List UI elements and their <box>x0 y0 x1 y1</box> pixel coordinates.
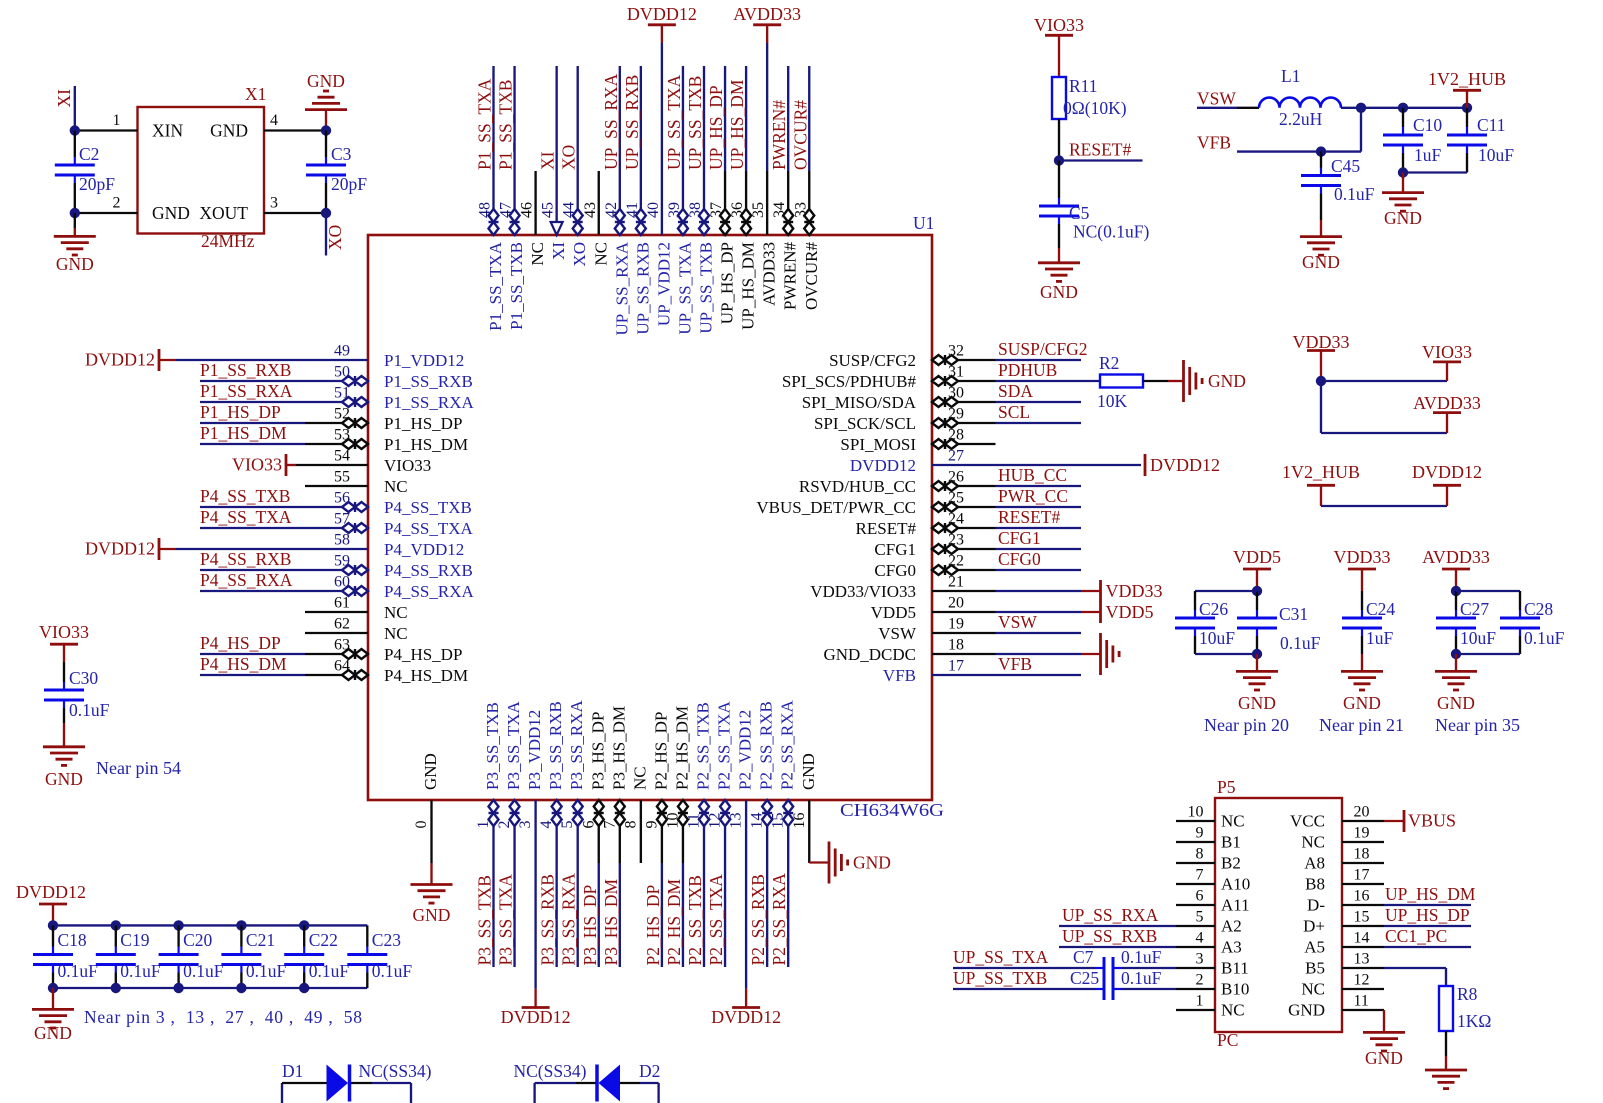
X1 pin names <box>152 121 248 224</box>
svg-text:24MHz: 24MHz <box>201 231 255 251</box>
svg-text:P2_SS_RXB: P2_SS_RXB <box>748 874 768 965</box>
wire VDD33 to AVDD33 <box>1321 381 1447 433</box>
U1 pin 36 UP_HS_DM (top) <box>729 66 758 330</box>
svg-text:GND: GND <box>1040 282 1078 302</box>
net label XO (pin 44) <box>559 145 579 170</box>
U1 pin 64 P4_HS_DM (left) <box>200 658 468 686</box>
U1 pin 62 NC (left) <box>305 616 408 644</box>
capacitor C45 0.1uF <box>1301 152 1375 220</box>
svg-text:UP_SS_RXB: UP_SS_RXB <box>633 242 652 335</box>
svg-text:22: 22 <box>948 553 964 570</box>
svg-text:P1_SS_RXA: P1_SS_RXA <box>200 381 293 401</box>
svg-text:VDD5: VDD5 <box>871 603 916 622</box>
ground symbol right of pin 16 <box>829 842 891 884</box>
svg-text:A5: A5 <box>1304 938 1325 957</box>
wire VSW to L1 <box>1237 107 1259 109</box>
svg-text:VSW: VSW <box>1197 89 1236 109</box>
net label RESET# (pin 24) <box>998 507 1060 527</box>
svg-text:62: 62 <box>334 616 350 633</box>
note Near pin 3 13 27 40 49 58 <box>84 1007 362 1027</box>
svg-text:NC(0.1uF): NC(0.1uF) <box>1073 222 1149 242</box>
svg-text:10: 10 <box>1188 804 1204 821</box>
svg-text:UP_SS_RXB: UP_SS_RXB <box>1062 926 1157 946</box>
net label VFB <box>1197 133 1231 153</box>
net label SDA (pin 30) <box>998 381 1033 401</box>
net label P4_SS_TXA (pin 57) <box>200 507 292 527</box>
net label P3_HS_DP (pin 6) <box>580 885 600 966</box>
net label P1_SS_RXB (pin 50) <box>200 360 291 380</box>
connector P5 body <box>1215 798 1342 1032</box>
U1 pin 19 VSW (right) <box>878 616 1081 644</box>
svg-text:26: 26 <box>948 469 964 486</box>
svg-text:CH634W6G: CH634W6G <box>840 800 944 820</box>
svg-text:GND: GND <box>1384 208 1422 228</box>
U1 pin 54 VIO33 (left) <box>286 448 431 476</box>
ground symbol below P5 pin 11 <box>1363 1032 1405 1068</box>
U1 pin 31 SPI_SCS/PDHUB# (right) <box>782 364 1081 392</box>
U1 pin 48 P1_SS_TXA (top) <box>477 66 506 331</box>
svg-text:47: 47 <box>498 202 515 218</box>
svg-text:Near pin 54: Near pin 54 <box>96 758 181 778</box>
power flag AVDD33 above pin 35 <box>733 4 801 43</box>
wire C45 to ground <box>1320 220 1322 237</box>
resistor R8 1Kohm <box>1439 984 1491 1031</box>
svg-text:28: 28 <box>948 427 964 444</box>
U1 pin 17 VFB (right) <box>883 658 1081 686</box>
svg-text:P4_SS_TXA: P4_SS_TXA <box>200 507 292 527</box>
ground symbol AVDD33 decap <box>1435 671 1477 713</box>
svg-text:CFG1: CFG1 <box>874 540 916 559</box>
svg-text:C11: C11 <box>1477 115 1506 135</box>
U1 pin 52 P1_HS_DP (left) <box>200 406 462 434</box>
U1 pin 39 UP_SS_TXA (top) <box>666 66 695 335</box>
U1 pin 24 RESET# (right) <box>856 511 1081 539</box>
net label UP_SS_RXA wire (P5 pin 5) <box>1059 905 1176 926</box>
svg-text:XO: XO <box>570 242 589 267</box>
power flag VDD33 (tie block) <box>1293 332 1350 381</box>
svg-text:53: 53 <box>334 427 350 444</box>
svg-text:GND: GND <box>1343 693 1381 713</box>
U1 reference designator <box>913 213 934 233</box>
svg-text:57: 57 <box>334 511 350 528</box>
wire R8 to ground <box>1445 1031 1447 1070</box>
svg-text:P1_SS_RXB: P1_SS_RXB <box>200 360 291 380</box>
U1 pin 23 CFG1 (right) <box>874 532 1081 560</box>
svg-text:GND: GND <box>1437 693 1475 713</box>
svg-text:NC: NC <box>1221 812 1245 831</box>
svg-text:AVDD33: AVDD33 <box>760 242 779 306</box>
svg-text:PWREN#: PWREN# <box>769 100 789 170</box>
U1 pin 5 P3_SS_RXA (bottom) <box>559 700 586 967</box>
node junction VDD33 tie <box>1316 376 1326 386</box>
power flag VIO33 above R11 <box>1034 15 1084 77</box>
svg-text:P2_HS_DP: P2_HS_DP <box>651 712 670 790</box>
net label P3_SS_TXB (pin 1) <box>475 875 495 965</box>
capacitor C22 0.1uF <box>284 925 349 988</box>
node junction C2/pin2/gnd <box>70 208 80 218</box>
svg-text:SPI_MISO/SDA: SPI_MISO/SDA <box>802 393 917 412</box>
svg-text:P2_HS_DM: P2_HS_DM <box>664 879 684 966</box>
svg-text:49: 49 <box>334 343 350 360</box>
U1 pin 34 PWREN# (top) <box>771 66 800 310</box>
svg-text:0.1uF: 0.1uF <box>309 961 350 981</box>
svg-text:C31: C31 <box>1279 604 1308 624</box>
svg-text:GND: GND <box>56 254 94 274</box>
svg-text:P4_SS_RXB: P4_SS_RXB <box>384 561 473 580</box>
svg-text:P4_SS_TXB: P4_SS_TXB <box>200 486 290 506</box>
U1 pin 3 P3_VDD12 (bottom) <box>517 710 544 989</box>
svg-text:0: 0 <box>413 821 430 829</box>
P5 pin 7 A10 (left) <box>1176 867 1250 894</box>
svg-text:45: 45 <box>540 202 557 218</box>
svg-text:0.1uF: 0.1uF <box>69 700 110 720</box>
svg-text:C27: C27 <box>1460 599 1489 619</box>
svg-text:46: 46 <box>519 202 536 218</box>
svg-text:14: 14 <box>1354 930 1370 947</box>
U1 pin 41 UP_SS_RXB (top) <box>624 66 653 335</box>
U1 pin 16 GND (bottom) <box>791 753 818 863</box>
power flag AVDD33 (decoupling) <box>1422 547 1490 591</box>
P5 pin 17 B8 (right) <box>1305 867 1384 894</box>
svg-text:P2_SS_RXB: P2_SS_RXB <box>757 701 776 790</box>
svg-text:PDHUB: PDHUB <box>998 360 1057 380</box>
svg-text:P2_SS_RXA: P2_SS_RXA <box>769 873 789 966</box>
node junction bottom C21 <box>236 983 246 993</box>
svg-text:B11: B11 <box>1221 959 1249 978</box>
svg-text:UP_SS_TXB: UP_SS_TXB <box>697 242 716 334</box>
svg-text:UP_VDD12: UP_VDD12 <box>654 242 673 326</box>
net label VSW <box>1197 89 1237 109</box>
net label P3_SS_TXA (pin 2) <box>496 874 516 966</box>
U1 pin 6 P3_HS_DP (bottom) <box>580 712 607 967</box>
svg-text:42: 42 <box>603 202 620 218</box>
P5 pin 14 A5 (right) <box>1304 930 1384 957</box>
capacitor C24 1uF <box>1342 591 1395 654</box>
net label XO wire <box>325 213 327 256</box>
svg-text:C2: C2 <box>79 144 99 164</box>
capacitor C11 10uF <box>1447 108 1514 173</box>
svg-text:Near pin 35: Near pin 35 <box>1435 715 1520 735</box>
power flag VIO33 at pin 54 <box>232 454 286 476</box>
svg-text:34: 34 <box>771 202 788 218</box>
capacitor C3 20pF <box>306 131 367 214</box>
wire gnd to node4 <box>325 110 327 131</box>
power flag VDD5 (decoupling) <box>1233 547 1281 591</box>
svg-text:NC: NC <box>528 242 547 266</box>
net label XI <box>54 89 74 108</box>
svg-text:RESET#: RESET# <box>856 519 917 538</box>
capacitor C19 0.1uF <box>96 925 161 988</box>
svg-text:CFG0: CFG0 <box>874 561 916 580</box>
wire L1 output rail <box>1341 107 1467 109</box>
diode D2 NC(SS34) <box>514 1061 661 1103</box>
svg-text:X1: X1 <box>245 84 266 104</box>
svg-text:P1_SS_RXA: P1_SS_RXA <box>384 393 474 412</box>
svg-text:15: 15 <box>1354 909 1370 926</box>
power flag DVDD12 at pin 27 <box>1145 454 1220 476</box>
svg-text:6: 6 <box>1196 888 1204 905</box>
svg-text:C26: C26 <box>1199 599 1228 619</box>
U1 pin 29 SPI_SCK/SCL (right) <box>814 406 1081 434</box>
svg-text:D+: D+ <box>1303 917 1325 936</box>
U1 pin 9 P2_HS_DP (bottom) <box>643 712 670 967</box>
net label UP_SS_TXA (pin 39) <box>664 74 684 170</box>
svg-text:UP_SS_TXA: UP_SS_TXA <box>664 74 684 170</box>
X1 value 24MHz <box>201 231 255 251</box>
ground symbol above C3 node <box>305 71 347 110</box>
U1 pin 26 RSVD/HUB_CC (right) <box>799 469 1081 497</box>
svg-text:DVDD12: DVDD12 <box>627 4 697 24</box>
wire P5 pin 13 to R8 <box>1384 968 1446 986</box>
svg-text:0.1uF: 0.1uF <box>1121 947 1162 967</box>
svg-text:VIO33: VIO33 <box>1034 15 1084 35</box>
svg-text:HUB_CC: HUB_CC <box>998 465 1067 485</box>
svg-text:RESET#: RESET# <box>1069 140 1131 160</box>
svg-text:GND: GND <box>1208 371 1246 391</box>
svg-text:P1_SS_TXB: P1_SS_TXB <box>496 80 516 170</box>
wire AVDD33 decap to ground <box>1455 654 1457 671</box>
node junction top C20 <box>173 920 183 930</box>
U1 pin 32 SUSP/CFG2 (right) <box>829 343 1081 371</box>
svg-text:GND: GND <box>1288 1001 1325 1020</box>
svg-text:DVDD12: DVDD12 <box>1412 462 1482 482</box>
svg-text:18: 18 <box>1354 846 1370 863</box>
IC U1 CH634W6G body <box>368 235 932 800</box>
svg-text:0.1uF: 0.1uF <box>246 961 287 981</box>
svg-text:VIO33: VIO33 <box>232 455 282 475</box>
svg-text:P1_SS_TXA: P1_SS_TXA <box>475 78 495 170</box>
net label CFG1 (pin 23) <box>998 528 1041 548</box>
svg-text:XO: XO <box>325 225 345 250</box>
svg-text:DVDD12: DVDD12 <box>1150 455 1220 475</box>
power flag DVDD12 at pin 58 <box>85 538 159 560</box>
svg-text:17: 17 <box>948 658 964 675</box>
svg-text:UP_HS_DM: UP_HS_DM <box>1385 884 1476 904</box>
wire pin31 to R2 <box>1081 380 1100 382</box>
svg-text:P2_VDD12: P2_VDD12 <box>736 710 755 790</box>
note Near pin 54 <box>96 758 181 778</box>
net label P4_SS_TXB (pin 56) <box>200 486 290 506</box>
P5 pin 1 NC (left) <box>1176 993 1245 1020</box>
U1 pin 53 P1_HS_DM (left) <box>200 427 468 455</box>
capacitor C18 0.1uF <box>33 925 98 988</box>
svg-text:SPI_MOSI: SPI_MOSI <box>840 435 916 454</box>
svg-text:P1_SS_TXB: P1_SS_TXB <box>507 242 526 330</box>
svg-text:P2_SS_TXA: P2_SS_TXA <box>706 874 726 966</box>
P5 pin 10 NC (left) <box>1176 804 1245 831</box>
capacitor C2 20pF <box>55 131 115 214</box>
svg-text:2: 2 <box>113 195 121 212</box>
svg-text:A8: A8 <box>1304 854 1325 873</box>
P5 pin 4 A3 (left) <box>1176 930 1242 957</box>
power flag DVDD12 below pin 3 <box>501 989 571 1027</box>
U1 pin 30 SPI_MISO/SDA (right) <box>802 385 1081 413</box>
svg-text:CFG1: CFG1 <box>998 528 1041 548</box>
svg-text:XI: XI <box>549 242 568 260</box>
svg-text:59: 59 <box>334 553 350 570</box>
net label XI (pin 45) <box>538 151 558 170</box>
svg-text:1KΩ: 1KΩ <box>1457 1011 1491 1031</box>
power flag VDD33 at pin 21 <box>1081 580 1163 602</box>
net label UP_SS_RXB (pin 41) <box>622 75 642 170</box>
capacitor C27 10uF <box>1436 591 1496 654</box>
svg-text:U1: U1 <box>913 213 934 233</box>
svg-text:C19: C19 <box>120 930 149 950</box>
svg-text:7: 7 <box>601 821 618 829</box>
svg-text:PWREN#: PWREN# <box>781 242 800 311</box>
wire VDD5 decap to ground <box>1256 654 1258 671</box>
svg-text:P3_VDD12: P3_VDD12 <box>525 710 544 790</box>
wire GND rail bottom <box>53 987 367 989</box>
net label PWREN# (pin 34) <box>769 100 789 170</box>
svg-text:38: 38 <box>687 202 704 218</box>
svg-text:B1: B1 <box>1221 833 1241 852</box>
net label P4_HS_DM (pin 64) <box>200 654 287 674</box>
X1 pin 3 wire <box>264 195 326 214</box>
svg-text:C20: C20 <box>183 930 212 950</box>
U1 pin 20 VDD5 (right) <box>871 595 1081 623</box>
svg-text:GND: GND <box>421 753 440 790</box>
U1 pin 14 P2_SS_RXB (bottom) <box>749 701 776 967</box>
net label CC1_PC wire (P5 pin 14) <box>1384 926 1471 947</box>
node junction R11/C5/RESET# <box>1054 155 1064 165</box>
svg-text:XOUT: XOUT <box>199 203 248 223</box>
svg-text:7: 7 <box>1196 867 1204 884</box>
svg-text:OVCUR#: OVCUR# <box>790 100 810 170</box>
svg-text:DVDD12: DVDD12 <box>16 882 86 902</box>
node junction AVDD33 bottom <box>1451 649 1461 659</box>
ground symbol below C5 <box>1038 263 1080 302</box>
svg-text:GND: GND <box>1302 252 1340 272</box>
svg-text:56: 56 <box>334 490 350 507</box>
svg-text:P2_SS_RXA: P2_SS_RXA <box>778 700 797 790</box>
svg-text:UP_SS_RXA: UP_SS_RXA <box>601 73 621 170</box>
svg-text:VDD33/VIO33: VDD33/VIO33 <box>810 582 916 601</box>
ground symbol below C10 <box>1382 193 1424 228</box>
node junction C45 top <box>1316 146 1326 156</box>
svg-text:GND: GND <box>1238 693 1276 713</box>
wire R2 to ground <box>1143 380 1184 382</box>
U1 part number CH634W6G <box>840 800 944 820</box>
svg-text:29: 29 <box>948 406 964 423</box>
svg-text:GND: GND <box>34 1023 72 1043</box>
P5 pin 12 NC (right) <box>1301 972 1384 999</box>
net label P2_SS_RXB (pin 14) <box>748 874 768 965</box>
ground symbol at pin 18 <box>1101 633 1120 675</box>
svg-text:54: 54 <box>334 448 350 465</box>
wire VDD33 to VIO33 <box>1321 380 1447 382</box>
svg-text:UP_HS_DM: UP_HS_DM <box>739 242 758 330</box>
P5 pin 3 B11 (left) <box>1176 951 1249 978</box>
svg-text:P4_HS_DP: P4_HS_DP <box>384 645 462 664</box>
svg-text:SPI_SCS/PDHUB#: SPI_SCS/PDHUB# <box>782 372 917 391</box>
svg-text:9: 9 <box>643 821 660 829</box>
net label P1_SS_TXA (pin 48) <box>475 78 495 170</box>
svg-text:C25: C25 <box>1070 968 1099 988</box>
svg-text:P3_SS_TXA: P3_SS_TXA <box>504 700 523 790</box>
svg-text:NC: NC <box>1301 833 1325 852</box>
svg-text:P1_SS_RXB: P1_SS_RXB <box>384 372 473 391</box>
node junction AVDD33 top <box>1451 586 1461 596</box>
svg-text:C45: C45 <box>1331 156 1360 176</box>
svg-text:31: 31 <box>948 364 964 381</box>
wire and rotated ground at U1 pin 16 <box>809 861 829 864</box>
svg-text:NC: NC <box>384 477 408 496</box>
capacitor C21 0.1uF <box>221 925 286 988</box>
svg-text:5: 5 <box>559 821 576 829</box>
P5 pin 11 GND (right) <box>1288 993 1384 1020</box>
ground symbol below C30 <box>43 747 85 789</box>
svg-text:37: 37 <box>708 202 725 218</box>
svg-text:C24: C24 <box>1366 599 1395 619</box>
svg-text:VCC: VCC <box>1290 812 1325 831</box>
svg-text:UP_SS_TXB: UP_SS_TXB <box>953 968 1047 988</box>
svg-text:SCL: SCL <box>998 402 1030 422</box>
svg-text:19: 19 <box>1354 825 1370 842</box>
svg-text:P3_SS_RXA: P3_SS_RXA <box>567 700 586 790</box>
svg-text:L1: L1 <box>1281 66 1300 86</box>
svg-text:DVDD12: DVDD12 <box>501 1007 571 1027</box>
svg-text:Near pin 21: Near pin 21 <box>1319 715 1404 735</box>
net label RESET# wire <box>1059 159 1143 161</box>
svg-text:P2_SS_TXA: P2_SS_TXA <box>715 700 734 790</box>
svg-text:0.1uF: 0.1uF <box>58 961 99 981</box>
P5 pin 5 A2 (left) <box>1176 909 1242 936</box>
net label VSW (pin 19) <box>998 612 1037 632</box>
svg-text:NC: NC <box>1301 980 1325 999</box>
svg-text:P3_SS_RXA: P3_SS_RXA <box>559 873 579 966</box>
svg-text:52: 52 <box>334 406 350 423</box>
svg-text:1: 1 <box>475 821 492 829</box>
svg-text:25: 25 <box>948 490 964 507</box>
svg-text:A10: A10 <box>1221 875 1250 894</box>
U1 pin 42 UP_SS_RXA (top) <box>603 66 632 336</box>
svg-text:NC: NC <box>1221 1001 1245 1020</box>
svg-text:16: 16 <box>1354 888 1370 905</box>
net label UP_SS_TXB (pin 38) <box>685 76 705 170</box>
svg-text:12: 12 <box>1354 972 1370 989</box>
svg-text:GND: GND <box>413 905 451 925</box>
svg-text:VSW: VSW <box>998 612 1037 632</box>
note Near pin 21 <box>1319 715 1404 735</box>
svg-text:XI: XI <box>54 89 74 108</box>
svg-text:40: 40 <box>645 202 662 218</box>
svg-text:SDA: SDA <box>998 381 1033 401</box>
svg-text:20pF: 20pF <box>79 174 115 194</box>
power flag VIO33 above C30 <box>39 622 89 662</box>
power flag VDD33 (decoupling) <box>1334 547 1391 591</box>
svg-text:36: 36 <box>729 202 746 218</box>
svg-text:PWR_CC: PWR_CC <box>998 486 1068 506</box>
svg-text:P2_HS_DM: P2_HS_DM <box>672 706 691 790</box>
svg-text:P3_SS_TXB: P3_SS_TXB <box>483 702 502 790</box>
svg-text:AVDD33: AVDD33 <box>733 4 801 24</box>
svg-text:GND: GND <box>799 753 818 790</box>
U1 pin 28 SPI_MOSI (right) <box>840 427 995 455</box>
capacitor C5 NC(0.1uF) <box>1039 161 1149 249</box>
power flag DVDD12 at pin 49 <box>85 349 159 371</box>
svg-text:P3_HS_DM: P3_HS_DM <box>609 706 628 790</box>
net label P4_SS_RXA (pin 60) <box>200 570 293 590</box>
svg-text:1: 1 <box>1196 993 1204 1010</box>
svg-text:D1: D1 <box>282 1061 303 1081</box>
svg-text:A3: A3 <box>1221 938 1242 957</box>
svg-text:NC(SS34): NC(SS34) <box>514 1061 587 1081</box>
node junction C10 top <box>1398 103 1408 113</box>
svg-text:B2: B2 <box>1221 854 1241 873</box>
wire C30 to ground <box>63 723 65 747</box>
svg-text:SUSP/CFG2: SUSP/CFG2 <box>998 339 1088 359</box>
